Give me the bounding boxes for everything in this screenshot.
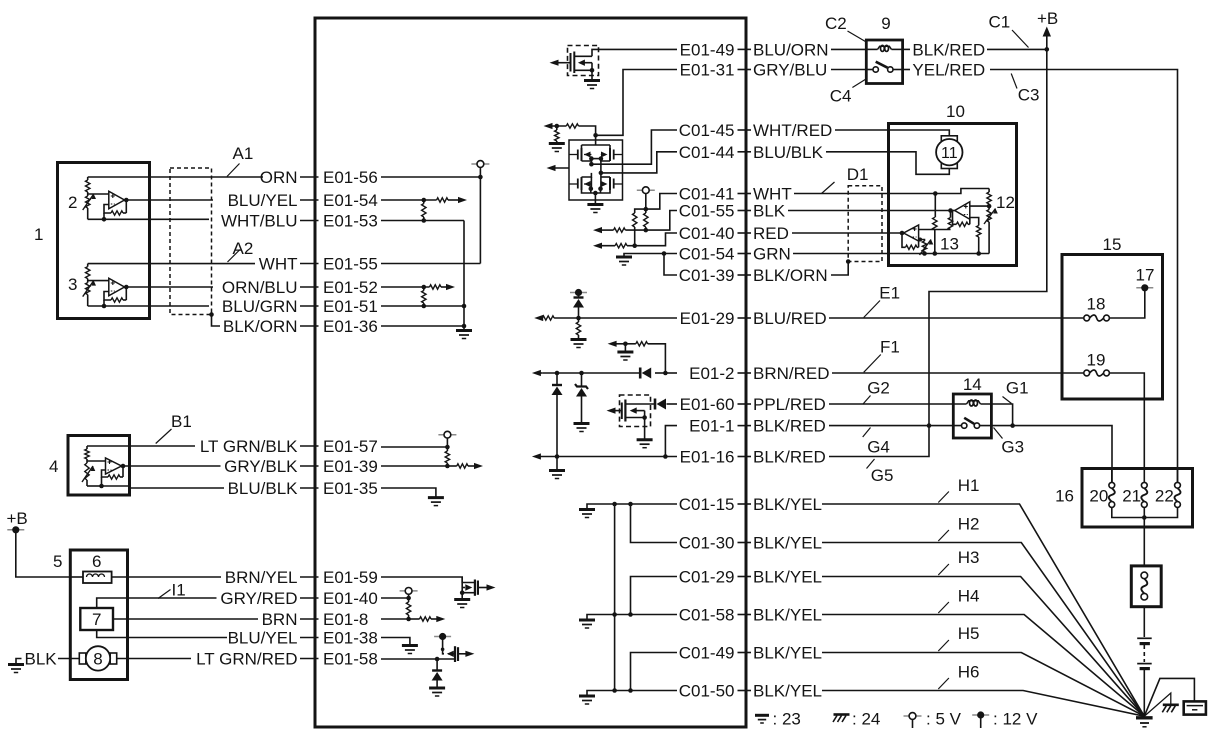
- wire BLU/RED to switch 18: [829, 317, 1084, 319]
- resistor on E01-52 signal: [430, 285, 442, 289]
- clamp diode pair node a: [555, 371, 560, 376]
- sensor 2 wiper tap wire: [88, 193, 109, 195]
- switch 19: [1084, 370, 1090, 376]
- svg-text:1: 1: [34, 225, 43, 244]
- wire BLU/YEL from component 7: [97, 630, 227, 638]
- fuse bottom bus: [1112, 507, 1178, 517]
- svg-text:: 23: : 23: [773, 710, 801, 729]
- sensor 3 feedback resistor: [125, 287, 127, 300]
- pin E01-55 stub and label, wire color WHT: [300, 263, 319, 265]
- label H5 tick: [938, 640, 949, 651]
- svg-text:G5: G5: [871, 466, 894, 485]
- wire E01-54 internal: [381, 199, 437, 201]
- op-amp 12: [955, 202, 970, 220]
- pin E01-29 stub and label, wire color BLU/RED: [738, 317, 752, 319]
- wire op12 plus input: [970, 205, 989, 207]
- MOSFET M1 dashed package: [568, 46, 599, 76]
- wire +B down to E01-16 row: [829, 426, 929, 457]
- svg-text:PPL/RED: PPL/RED: [753, 395, 826, 414]
- ground stub at C01-50: [587, 691, 615, 697]
- pin E01-31 stub and label, wire color GRY/BLU: [738, 69, 752, 71]
- wire C01-50 internal: [615, 690, 677, 692]
- clamp diode E01-2 to E01-16: [556, 373, 558, 385]
- label G4 tick: [863, 428, 871, 438]
- svg-text:E01-55: E01-55: [323, 255, 378, 274]
- wire BLU/ORN to relay 9: [831, 48, 866, 50]
- wire body ground loop: [1144, 678, 1194, 716]
- wire E01-60 internal: [667, 403, 678, 405]
- label C3 tick: [1011, 74, 1017, 89]
- svg-text:BLK/YEL: BLK/YEL: [753, 568, 822, 587]
- resistor on E01-39 signal: [457, 464, 468, 468]
- box 15 switch assembly: [1062, 255, 1163, 400]
- svg-text:BLU/BLK: BLU/BLK: [228, 479, 299, 498]
- op13 feedback resistor: [918, 241, 920, 247]
- ground for E01-58 clamp: [429, 687, 445, 690]
- sensor 2 divider resistor: [87, 177, 89, 180]
- label G2 tick: [863, 396, 871, 405]
- pin E01-49 stub and label, wire color BLU/ORN: [738, 48, 752, 50]
- H-bridge output 1 node: [589, 162, 594, 167]
- wire BLU/GRN sensor 3 ground: [150, 305, 210, 307]
- svg-text:C4: C4: [830, 87, 852, 106]
- wire E01-40 internal: [381, 597, 409, 599]
- wire E01-8 internal: [381, 618, 409, 620]
- svg-text:10: 10: [946, 102, 965, 121]
- pin C01-41 stub and label, wire color WHT: [738, 193, 752, 195]
- wire BRN/YEL from component 6: [70, 576, 83, 578]
- node sense B: [644, 228, 649, 233]
- sensor 3 divider resistor: [87, 264, 89, 267]
- pin E01-16 stub and label, wire color BLK/RED: [738, 456, 752, 458]
- MOSFET M2 bars: [624, 400, 626, 422]
- svg-text:E01-1: E01-1: [689, 417, 734, 436]
- node feedback ground tap: [623, 342, 628, 347]
- 5V supply symbol for E01-57: [446, 438, 448, 447]
- pulldown resistor E01-29: [578, 318, 580, 322]
- component box 4 (sensor): [68, 436, 130, 496]
- node WHT divider: [933, 191, 938, 196]
- H-bridge bottom rail: [589, 186, 594, 191]
- svg-text:16: 16: [1055, 487, 1074, 506]
- svg-text:E01-56: E01-56: [323, 168, 378, 187]
- resistor on E01-8 signal: [420, 617, 432, 621]
- node E01-57 pullup junction: [445, 445, 450, 450]
- wire E01-38 internal to ground: [381, 638, 410, 646]
- wire BLK/ORN shield to connector D: [831, 262, 848, 276]
- sensor 4 op-amp: [87, 460, 106, 462]
- svg-text:BLK: BLK: [25, 650, 58, 669]
- switch 18: [1084, 315, 1090, 321]
- svg-text:C2: C2: [825, 14, 847, 33]
- pin E01-2 stub and label, wire color BRN/RED: [738, 372, 752, 374]
- svg-text:E01-54: E01-54: [323, 191, 378, 210]
- wire E01-36 internal: [381, 325, 464, 327]
- node +B to relay 9 coil: [1045, 47, 1050, 52]
- svg-text:20: 20: [1089, 487, 1108, 506]
- svg-text:C1: C1: [989, 13, 1011, 32]
- ground for E01-29 pulldown: [571, 338, 587, 341]
- pin C01-15 stub and label, wire color BLK/YEL: [738, 503, 752, 505]
- variable resistor 12: [988, 206, 990, 209]
- op-amp in sensor 2: [109, 191, 125, 209]
- pin C01-29 stub and label, wire color BLK/YEL: [738, 576, 752, 578]
- pin C01-45 stub and label, wire color WHT/RED: [738, 129, 752, 131]
- clamp diode on E01-58: [436, 659, 438, 671]
- main fuse: [1141, 572, 1148, 579]
- sensor 4 divider resistor: [86, 446, 88, 449]
- svg-text:BLK/RED: BLK/RED: [753, 448, 826, 467]
- svg-text:GRN: GRN: [753, 245, 791, 264]
- svg-text:BLU/ORN: BLU/ORN: [753, 40, 829, 59]
- label H4 tick: [938, 602, 949, 613]
- node E01-29: [576, 316, 581, 321]
- svg-text:BLK/ORN: BLK/ORN: [223, 317, 298, 336]
- wire G3 to fuse 20: [1013, 426, 1112, 483]
- op12 feedback resistor: [969, 218, 971, 225]
- motor 8 in box 5: [79, 653, 86, 664]
- H-bridge left brake arrow: [547, 165, 556, 171]
- svg-text:2: 2: [68, 193, 77, 212]
- box 10 motor assembly: [889, 124, 1017, 266]
- wire C01-15 internal: [615, 503, 677, 505]
- ground for E01-59 MOSFET: [454, 598, 470, 601]
- pin E01-39 stub and label, wire color GRY/BLK: [300, 465, 319, 467]
- H-bridge output 2 node: [599, 171, 604, 176]
- svg-text:BLU/BLK: BLU/BLK: [753, 143, 824, 162]
- MOSFET M2 gate arrow: [613, 410, 622, 412]
- arrow E01-16 to logic: [532, 453, 541, 459]
- svg-text:17: 17: [1136, 266, 1155, 285]
- svg-text:BLK/YEL: BLK/YEL: [753, 644, 822, 663]
- MOSFET E01-59 body arrow: [461, 577, 463, 593]
- node C01-49 join: [628, 688, 633, 693]
- wire E01-52 internal: [381, 286, 430, 288]
- svg-text:14: 14: [963, 375, 982, 394]
- node H-bridge supply: [593, 133, 598, 138]
- ground for E01-16 clamp: [549, 469, 565, 472]
- svg-text:WHT/RED: WHT/RED: [753, 121, 832, 140]
- pulldown resistor to ground: [556, 126, 558, 130]
- svg-text:E01-2: E01-2: [689, 364, 734, 383]
- node E01-52 divider: [422, 285, 427, 290]
- svg-text:GRY/BLK: GRY/BLK: [224, 457, 298, 476]
- node clamp to E01-16: [555, 454, 560, 459]
- label F1 tick: [864, 355, 881, 373]
- svg-text:H4: H4: [958, 587, 980, 606]
- svg-text:+B: +B: [7, 509, 28, 528]
- wire WHT to box 10: [794, 193, 935, 195]
- svg-text:E01-58: E01-58: [323, 650, 378, 669]
- label A1 tick: [227, 164, 240, 177]
- wire E01-51 internal: [381, 305, 464, 307]
- svg-text:BLU/YEL: BLU/YEL: [228, 629, 298, 648]
- ground for H-bridge: [587, 203, 603, 206]
- pin E01-60 stub and label, wire color PPL/RED: [738, 403, 752, 405]
- pin C01-50 stub and label, wire color BLK/YEL: [738, 690, 752, 692]
- fuse 20 top lead: [1111, 469, 1113, 483]
- MOSFET M1 drain lead: [574, 55, 592, 57]
- svg-text:ORN: ORN: [260, 168, 298, 187]
- svg-text:E01-59: E01-59: [323, 568, 378, 587]
- wire ORN/BLU from op-amp 3: [150, 286, 214, 288]
- arrow E01-52 to logic: [446, 284, 455, 290]
- variable resistor 13: [920, 240, 924, 242]
- svg-text:D1: D1: [847, 165, 869, 184]
- MOSFET E01-59 source to ground: [462, 592, 475, 594]
- sensor 3 bottom rail to ground wire: [88, 305, 104, 307]
- svg-text:: 12 V: : 12 V: [993, 710, 1038, 729]
- wire C01-58 internal: [615, 614, 677, 616]
- node E01-51 to ground rail: [462, 304, 467, 309]
- svg-text:WHT: WHT: [259, 255, 298, 274]
- node on E01-53 row: [422, 218, 427, 223]
- svg-text:C01-40: C01-40: [679, 224, 735, 243]
- wire C01-29 internal: [631, 577, 678, 615]
- sensor 4 top wire LT GRN/BLK: [87, 445, 195, 447]
- chassis ground 24 near battery: [1144, 693, 1171, 716]
- svg-text:A2: A2: [233, 239, 254, 258]
- 12V supply symbol for E01-58 driver: [434, 636, 451, 638]
- svg-text:C01-54: C01-54: [679, 245, 735, 264]
- label D1 tick: [822, 182, 835, 194]
- ground stub at C01-15: [587, 504, 615, 510]
- svg-text:I1: I1: [172, 581, 186, 600]
- relay 14 coil: [967, 401, 981, 404]
- 5V supply symbol for throttle sensors: [637, 189, 655, 191]
- H-bridge FET bottom-left: [581, 177, 583, 190]
- svg-text:E01-38: E01-38: [323, 629, 378, 648]
- wire BLK/YEL H2 to ground point: [822, 543, 1144, 717]
- ground for M1: [584, 79, 600, 82]
- sensor 4 ground wire BLU/BLK: [87, 485, 102, 487]
- wire E01-59 internal to MOSFET drain: [381, 577, 474, 583]
- pin E01-40 stub and label, wire color GRY/RED: [300, 597, 319, 599]
- wire BLK/RED E01-1 to switch 14: [829, 425, 963, 427]
- label H2 tick: [938, 530, 949, 541]
- wire BRN/RED to switch 19: [832, 372, 1084, 374]
- 5V supply symbol for E01-40: [408, 594, 410, 598]
- pin E01-36 stub and label, wire color BLK/ORN: [300, 325, 319, 327]
- wire E01-16 internal: [537, 456, 677, 458]
- MOSFET E01-59 gate arrow: [487, 584, 496, 590]
- ground for E01-35: [428, 496, 444, 499]
- arrow E01-54 to logic: [458, 197, 467, 203]
- node on E01-51 row: [422, 304, 427, 309]
- MOSFET E01-58 gate arrow: [465, 651, 474, 657]
- pullup resistor E01-40 to E01-8: [408, 598, 410, 602]
- wire C01-41 internal: [646, 194, 677, 210]
- op-amp 13: [904, 225, 919, 241]
- main fuse box: [1131, 566, 1161, 607]
- svg-text:BRN/RED: BRN/RED: [753, 364, 830, 383]
- wire bus down to main fuse: [1143, 518, 1145, 566]
- svg-text:E01-52: E01-52: [323, 278, 378, 297]
- svg-text:RED: RED: [753, 224, 789, 243]
- wire BLK/YEL H6 to ground point: [822, 691, 1144, 717]
- ground for gate pulldown: [549, 142, 565, 145]
- node C01-29 join: [628, 612, 633, 617]
- wire 17 to switch 18: [1109, 290, 1145, 319]
- svg-text:E01-39: E01-39: [323, 457, 378, 476]
- label C1 tick: [1012, 30, 1029, 48]
- wire C01-40 internal: [635, 233, 677, 246]
- wire BLK from motor 8 to ground: [58, 658, 79, 660]
- svg-text:E1: E1: [879, 284, 900, 303]
- sense B series resistor and arrow: [625, 229, 646, 231]
- svg-text:H2: H2: [958, 515, 980, 534]
- pin C01-39 stub and label, wire color BLK/ORN: [738, 274, 752, 276]
- wire LT GRN/RED from motor 8: [117, 658, 191, 660]
- sensor 3 top supply wire WHT: [88, 263, 255, 265]
- H-bridge mid rails: [582, 159, 592, 161]
- arrow E01-8 to logic: [436, 616, 445, 622]
- wire E01-53 ground rail down: [463, 221, 465, 331]
- feedback path above E01-2: [648, 344, 666, 373]
- MOSFET M1 body arrow: [584, 62, 593, 64]
- pin E01-56 stub and label, wire color ORN: [300, 176, 319, 178]
- legend 12V symbol: [972, 714, 989, 716]
- MOSFET M1 source to ground: [574, 69, 592, 71]
- svg-text:E01-8: E01-8: [323, 610, 368, 629]
- svg-text:BRN: BRN: [262, 610, 298, 629]
- node A shield junction dot: [209, 312, 214, 317]
- svg-text:C01-29: C01-29: [679, 568, 735, 587]
- pin E01-8 stub and label, wire color BRN: [300, 618, 319, 620]
- MOSFET E01-58 source to row: [437, 658, 455, 660]
- svg-text:12: 12: [996, 193, 1015, 212]
- ground for C01-54: [616, 256, 632, 259]
- svg-text:BLK/YEL: BLK/YEL: [753, 606, 822, 625]
- svg-text:C01-58: C01-58: [679, 606, 735, 625]
- svg-text:GRY/RED: GRY/RED: [220, 589, 297, 608]
- wire BLK/YEL H5 to ground point: [822, 653, 1144, 717]
- svg-text:7: 7: [92, 610, 101, 629]
- node G3: [1010, 423, 1015, 428]
- resistor middle to op13 input: [950, 211, 952, 218]
- node 12V to MOSFET: [441, 648, 445, 652]
- svg-text:E01-36: E01-36: [323, 317, 378, 336]
- label A2 tick: [228, 250, 241, 263]
- svg-text:BLK/YEL: BLK/YEL: [753, 682, 822, 701]
- svg-text:C01-50: C01-50: [679, 682, 735, 701]
- svg-text:B1: B1: [171, 412, 192, 431]
- component box 7 in box 5: [80, 608, 113, 630]
- main ground: [1136, 716, 1153, 719]
- wire C01-39 internal: [664, 254, 677, 276]
- label G5 tick: [867, 459, 875, 469]
- wire E01-55 internal: [381, 263, 480, 265]
- battery symbol: [1137, 637, 1152, 639]
- svg-text:19: 19: [1087, 351, 1106, 370]
- svg-text:E01-31: E01-31: [680, 61, 735, 80]
- wire C01-30 internal: [631, 504, 678, 543]
- MOSFET E01-58 body arrow: [447, 651, 454, 657]
- svg-text:8: 8: [93, 649, 102, 668]
- node E01-2 outer: [663, 371, 668, 376]
- node sensor common a: [922, 251, 927, 256]
- clamp diode to 12V on E01-29: [574, 296, 584, 298]
- svg-text:G3: G3: [1001, 438, 1024, 457]
- legend 5V symbol: [904, 715, 922, 717]
- svg-text:18: 18: [1087, 295, 1106, 314]
- wire BLK/YEL H3 to ground point: [822, 577, 1144, 717]
- ground for BLK wire: [8, 663, 24, 666]
- wire switch 19 to fuse 21: [1109, 373, 1144, 483]
- pin C01-44 stub and label, wire color BLU/BLK: [738, 151, 752, 153]
- node on E01-8 row: [406, 617, 411, 622]
- pin E01-59 stub and label, wire color BRN/YEL: [300, 576, 319, 578]
- svg-text:C01-39: C01-39: [679, 266, 735, 285]
- sensor 4 feedback resistor: [122, 466, 124, 477]
- sensor 2 output node dot: [124, 198, 129, 203]
- svg-text:+B: +B: [1037, 9, 1058, 28]
- svg-text:H1: H1: [958, 476, 980, 495]
- 12V supply symbol 17: [1136, 287, 1153, 289]
- wire C01-45 internal from H-bridge output 1: [591, 130, 677, 164]
- node E01-54 divider: [422, 198, 427, 203]
- pin E01-1 stub and label, wire color BLK/RED: [738, 425, 752, 427]
- wire E01-29 internal: [554, 317, 677, 319]
- svg-text:ORN/BLU: ORN/BLU: [222, 278, 298, 297]
- wire C01-49 internal: [631, 653, 678, 691]
- component box 5 (actuator unit): [70, 550, 127, 680]
- svg-text:5: 5: [53, 552, 62, 571]
- arrow E01-2 to logic: [532, 370, 541, 376]
- fuse 22: [1175, 482, 1181, 488]
- node C01-39 join: [662, 251, 667, 256]
- MOSFET M2 source node: [625, 417, 644, 419]
- resistor WHT node down: [934, 194, 936, 218]
- svg-text:E01-60: E01-60: [680, 395, 735, 414]
- svg-text:F1: F1: [880, 338, 900, 357]
- MOSFET M2 body arrow: [635, 410, 645, 412]
- divider resistor A: [635, 209, 646, 213]
- wire BRN from component 7: [113, 618, 258, 620]
- sensor 3 variable resistor: [87, 279, 89, 283]
- ground for E01-38: [402, 644, 418, 647]
- svg-text:C01-30: C01-30: [679, 534, 735, 553]
- ground for M2: [637, 438, 653, 441]
- svg-text:E01-40: E01-40: [323, 589, 378, 608]
- svg-text:BLK/YEL: BLK/YEL: [753, 534, 822, 553]
- label I1 tick: [158, 590, 171, 599]
- svg-text:C01-44: C01-44: [679, 143, 735, 162]
- node E01-36 to ground rail: [462, 324, 467, 329]
- ECU main box E01/C01: [315, 18, 746, 727]
- series resistor and arrow E01-29: [542, 316, 554, 320]
- wire E01-49 internal: [592, 49, 677, 56]
- wire WHT step to resistor 12: [935, 189, 989, 194]
- wire BLK to op12 output: [788, 210, 951, 212]
- svg-text:LT GRN/RED: LT GRN/RED: [196, 650, 297, 669]
- sensor 4 variable resistor: [86, 459, 88, 463]
- wire BLK/YEL H4 to ground point: [822, 615, 1144, 717]
- label G1 tick: [1003, 397, 1012, 404]
- wire battery to main ground: [1143, 670, 1145, 716]
- wire GRN sensor common: [793, 253, 989, 255]
- pullup resistor E01-57 to E01-39: [446, 447, 448, 451]
- label H6 tick: [938, 678, 949, 689]
- svg-text:: 24: : 24: [852, 710, 880, 729]
- svg-text:E01-16: E01-16: [680, 448, 735, 467]
- node gate line pulldown: [555, 124, 560, 129]
- wire GRY/BLU to relay 9: [831, 69, 866, 71]
- wire 5V node down to E01-55: [479, 177, 481, 264]
- diode on E01-60: [654, 399, 657, 410]
- pin E01-52 stub and label, wire color ORN/BLU: [300, 286, 319, 288]
- op-amp in sensor 3: [109, 278, 125, 296]
